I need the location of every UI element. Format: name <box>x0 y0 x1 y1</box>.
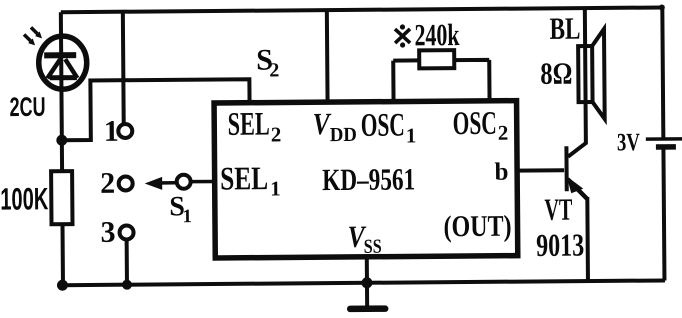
svg-text:OSC: OSC <box>361 107 405 143</box>
svg-text:KD–9561: KD–9561 <box>322 161 415 197</box>
svg-text:VT: VT <box>544 192 572 227</box>
svg-text:SS: SS <box>364 236 382 258</box>
svg-text:2: 2 <box>498 121 509 145</box>
svg-text:100K: 100K <box>0 181 49 216</box>
svg-text:8Ω: 8Ω <box>540 56 572 91</box>
svg-text:2: 2 <box>271 122 282 146</box>
svg-text:OSC: OSC <box>453 106 497 142</box>
svg-text:SEL: SEL <box>228 107 270 143</box>
svg-text:BL: BL <box>549 11 580 46</box>
svg-text:3V: 3V <box>617 129 640 156</box>
svg-text:1: 1 <box>406 123 417 147</box>
svg-text:9013: 9013 <box>536 227 584 263</box>
svg-text:1: 1 <box>104 115 119 148</box>
svg-text:DD: DD <box>330 124 357 146</box>
svg-text:2: 2 <box>269 59 279 81</box>
svg-text:SEL: SEL <box>220 161 268 197</box>
svg-text:b: b <box>495 159 509 186</box>
svg-text:2: 2 <box>100 167 115 200</box>
svg-text:240k: 240k <box>414 17 460 52</box>
svg-text:1: 1 <box>182 206 192 227</box>
svg-text:(OUT): (OUT) <box>443 210 511 244</box>
svg-text:2CU: 2CU <box>9 92 45 122</box>
svg-text:1: 1 <box>270 176 281 200</box>
svg-text:3: 3 <box>100 216 115 249</box>
